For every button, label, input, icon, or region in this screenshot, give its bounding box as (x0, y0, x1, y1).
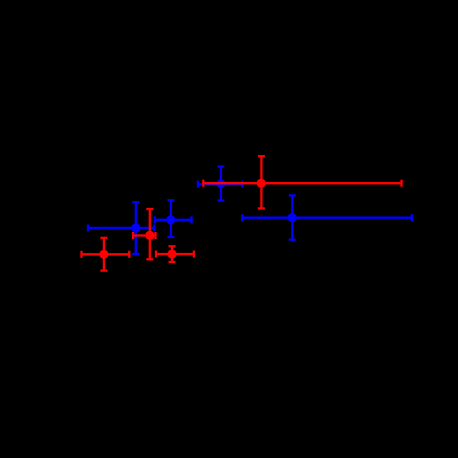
blue data point B1 with error bars (88, 202, 154, 254)
red data point R1 with error bars (82, 238, 130, 271)
red data point R2 with error bars (133, 209, 156, 259)
blue data point B4 with error bars (242, 195, 412, 239)
red data point R3 with error bars (156, 246, 194, 262)
red data point R4 with error bars (203, 156, 401, 208)
blue data point B2 with error bars (155, 200, 192, 237)
blue data point B3 with error bars (198, 167, 242, 201)
